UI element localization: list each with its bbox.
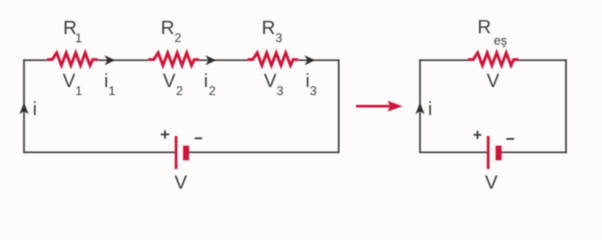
- label V3 sub 3: [277, 86, 283, 95]
- resistor R1: [47, 53, 98, 66]
- wire: bottom-left corner to battery + plate: [420, 151, 487, 153]
- resistor Res (equivalent): [468, 53, 519, 66]
- wire: left circuit right vertical: [338, 60, 340, 152]
- label R1 sub 1: [76, 34, 81, 43]
- plus sign (left battery): [161, 130, 170, 138]
- arrowhead i on left vertical wire: [19, 103, 28, 115]
- label V2 sub 2: [177, 86, 183, 95]
- label R3 'R': [263, 21, 274, 34]
- arrowhead i2 on top wire: [205, 55, 216, 65]
- label R1 'R': [65, 21, 76, 34]
- label i2 sub 2: [209, 86, 215, 95]
- arrowhead i on right circuit left wire: [415, 103, 424, 115]
- label V1 sub 1: [76, 86, 81, 95]
- wire: R3 to top-right corner (carries i3): [298, 59, 339, 61]
- label i3 'i': [307, 73, 309, 87]
- label V (right battery): [485, 176, 498, 189]
- battery V (right circuit): short negative plate: [496, 146, 502, 161]
- label i (right circuit current): [429, 101, 431, 115]
- wire: left circuit left vertical (node A to battery +): [23, 60, 25, 152]
- wire: R2 to R3 (carries i2): [198, 59, 249, 61]
- minus sign (right battery): [506, 138, 514, 140]
- wire: top lead node A to R1: [24, 59, 48, 61]
- wire: battery - plate to bottom-right corner: [502, 151, 566, 153]
- label i1 'i': [105, 73, 107, 87]
- label R2 sub 2: [175, 33, 181, 42]
- label R2 'R': [162, 21, 173, 34]
- arrowhead i1 on top wire: [104, 55, 115, 65]
- wire: top lead to Res: [420, 59, 468, 61]
- wire: Res to top-right corner: [518, 59, 566, 61]
- plus sign (right battery): [474, 131, 482, 139]
- equivalence arrow (red): [356, 105, 390, 108]
- label R3 sub 3: [276, 33, 282, 42]
- label i3 sub 3: [310, 86, 316, 95]
- wire: bottom run, bottom-left corner to battery + plate: [24, 151, 175, 153]
- label i2 'i': [205, 73, 207, 87]
- label Res 'R': [479, 20, 490, 33]
- wire: R1 to R2 (carries i1): [98, 59, 150, 61]
- resistor R3: [248, 53, 299, 66]
- minus sign (left battery): [195, 137, 202, 139]
- wire: right circuit right vertical: [565, 60, 567, 152]
- label V1 'V': [63, 74, 76, 87]
- battery V (left circuit): long positive plate: [175, 136, 178, 169]
- wire: bottom run, battery - plate to bottom-right corner: [189, 151, 339, 153]
- label i1 sub 1: [109, 86, 114, 95]
- label V (across equivalent resistor): [487, 74, 500, 87]
- battery V (right circuit): long positive plate: [487, 136, 490, 169]
- resistor R2: [149, 53, 200, 66]
- arrowhead i3 on top wire: [304, 55, 315, 65]
- wire: right circuit left vertical (carries i): [419, 60, 421, 152]
- label Res sub 'es': [494, 38, 506, 47]
- battery V (left circuit): short negative plate: [183, 146, 189, 161]
- label i (left circuit current): [34, 101, 36, 115]
- label V2 'V': [163, 74, 176, 87]
- label V3 'V': [264, 74, 277, 87]
- label V (left battery): [175, 176, 188, 189]
